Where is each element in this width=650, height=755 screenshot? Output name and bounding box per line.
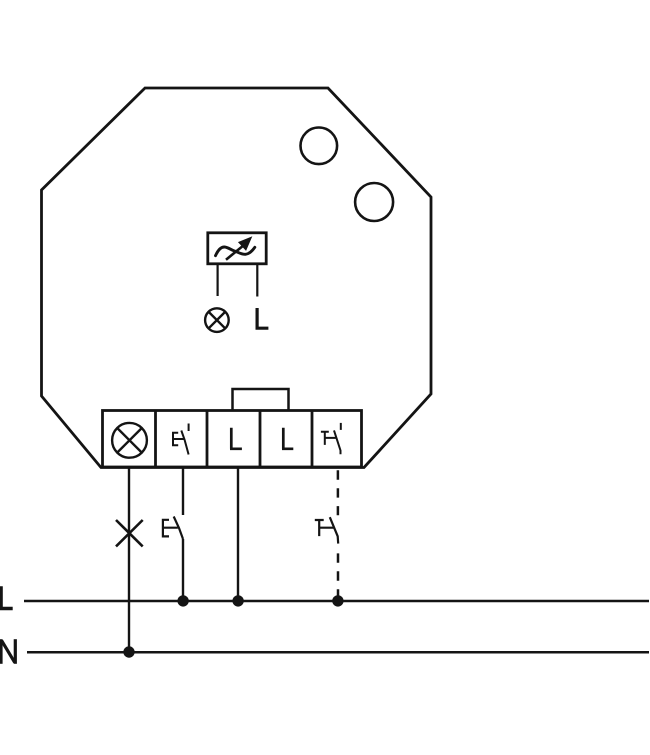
- wire from terminal 2 (upper): [182, 467, 184, 515]
- load cross X on wire 1: [116, 520, 143, 546]
- wire from terminal 1 to N bus: [128, 467, 130, 652]
- terminal 2 push-button symbol: [173, 424, 189, 455]
- dimmer icon (wave with arrow): [216, 237, 255, 260]
- N bus line: [27, 651, 649, 654]
- terminal 3 label L: [230, 428, 242, 449]
- terminal divider 4: [311, 411, 314, 468]
- junction dot wire3/L: [232, 595, 243, 606]
- terminal divider 2: [206, 411, 209, 468]
- terminal 4 label L: [282, 428, 293, 449]
- mounting hole circle (upper): [301, 128, 338, 165]
- junction dot wire1/N: [123, 646, 134, 657]
- dashed wire from S2 to L bus: [337, 553, 340, 601]
- external push-button S1: [163, 517, 183, 540]
- lamp symbol (internal): [205, 308, 229, 332]
- bus label L: [0, 586, 13, 608]
- junction dot wire5/L: [332, 595, 343, 606]
- dashed wire from terminal 5 (upper): [337, 470, 340, 515]
- terminal 1 lamp symbol: [112, 423, 147, 458]
- terminal 5 push-button symbol: [321, 423, 341, 454]
- external push-button S2: [315, 517, 338, 543]
- wire from terminal 3 to L bus: [237, 467, 239, 601]
- terminal bridge bump: [233, 389, 289, 410]
- terminal strip outline: [103, 411, 362, 468]
- wire from S1 to L bus: [182, 539, 184, 601]
- L bus line: [24, 600, 649, 603]
- node label L (internal): [256, 308, 269, 328]
- junction dot wire2/L: [177, 595, 188, 606]
- terminal divider 3: [259, 411, 262, 468]
- mounting hole circle (lower): [355, 183, 393, 221]
- device outline (flush-mount dimmer, octagon): [42, 88, 432, 468]
- dimmer lead wire (right): [256, 264, 258, 297]
- dimmer lead wire (left): [217, 264, 219, 296]
- bus label N: [1, 639, 15, 664]
- terminal divider 1: [154, 411, 157, 468]
- dimmer output box U1: [208, 233, 266, 264]
